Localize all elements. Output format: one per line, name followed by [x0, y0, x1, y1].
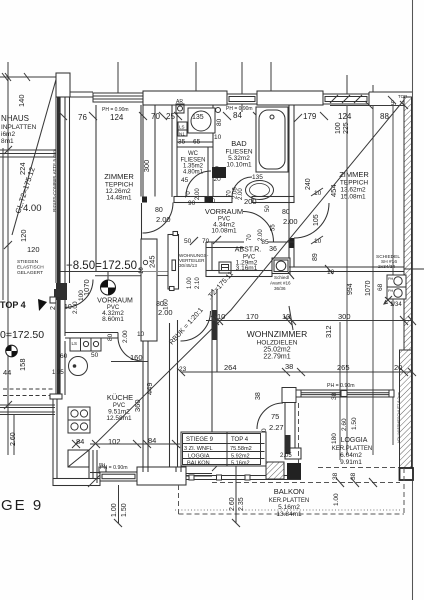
svg-text:70: 70 [186, 191, 192, 198]
svg-text:5.92m2: 5.92m2 [231, 454, 250, 460]
svg-text:4.00: 4.00 [23, 203, 42, 214]
door arc vorraum-zimmer right [294, 203, 329, 238]
texts left margin [0, 94, 157, 514]
svg-text:LS: LS [72, 341, 78, 346]
top wall band BAD [143, 91, 227, 105]
svg-text:100: 100 [78, 290, 85, 301]
svg-text:1.95: 1.95 [52, 370, 64, 376]
svg-text:TOP: TOP [398, 94, 407, 99]
TOP4 arrow [38, 299, 47, 311]
svg-text:38: 38 [350, 472, 357, 480]
svg-text:10: 10 [217, 312, 225, 321]
svg-text:VORRAUM: VORRAUM [205, 207, 243, 216]
svg-text:1070: 1070 [365, 280, 372, 296]
svg-text:GE 9: GE 9 [1, 497, 43, 514]
svg-text:10.08m1: 10.08m1 [211, 228, 237, 235]
top wall right stub [369, 92, 412, 106]
svg-text:75.58m2: 75.58m2 [230, 446, 252, 452]
long vertical extension lines [340, 105, 393, 460]
svg-text:80: 80 [216, 118, 223, 126]
svg-text:70: 70 [151, 112, 160, 121]
kitchen door arc [118, 337, 142, 361]
black wall block in bad [212, 167, 226, 178]
centrelines up from windows [117, 62, 119, 93]
svg-text:35: 35 [178, 139, 186, 146]
svg-text:80: 80 [155, 207, 163, 214]
svg-text:38: 38 [285, 362, 293, 371]
svg-text:8.60m1: 8.60m1 [102, 316, 124, 323]
svg-text:1.50: 1.50 [121, 503, 128, 517]
svg-text:13.84m1: 13.84m1 [276, 511, 302, 518]
svg-text:160: 160 [130, 353, 143, 362]
small box with symbol [219, 262, 231, 273]
svg-text:76: 76 [78, 113, 87, 122]
svg-text:LS: LS [179, 125, 185, 130]
svg-text:180: 180 [331, 433, 338, 444]
svg-text:1/34: 1/34 [390, 302, 402, 308]
svg-text:9.91m1: 9.91m1 [340, 459, 362, 466]
svg-text:245: 245 [148, 255, 157, 268]
svg-text:994: 994 [347, 283, 354, 295]
dim below kitchen window [118, 485, 120, 523]
svg-text:2.00: 2.00 [156, 215, 171, 224]
svg-text:300: 300 [338, 312, 351, 321]
corner pier [56, 73, 70, 97]
svg-text:PH: PH [388, 277, 394, 281]
svg-text:WC: WC [188, 151, 199, 157]
loggia pillar [282, 388, 296, 403]
svg-text:KÜCHE: KÜCHE [107, 393, 133, 402]
svg-text:BAD: BAD [231, 139, 247, 148]
svg-text:36: 36 [269, 246, 277, 253]
sink [69, 357, 88, 376]
balkon pillar hatched + black [266, 462, 284, 479]
svg-text:10.10m1: 10.10m1 [226, 162, 252, 169]
svg-text:10: 10 [214, 134, 222, 141]
kitchen west wall fill [57, 300, 61, 395]
svg-text:PH = 0.90m: PH = 0.90m [100, 465, 128, 471]
svg-text:3 ZI. WNFL: 3 ZI. WNFL [184, 446, 213, 452]
svg-text:10: 10 [282, 312, 290, 321]
zimmer right south wall [289, 265, 424, 274]
level line under +8.50 [60, 271, 141, 273]
svg-text:N1: N1 [179, 132, 185, 137]
svg-text:360: 360 [133, 399, 142, 412]
svg-text:2.00: 2.00 [283, 217, 298, 226]
svg-text:20: 20 [394, 363, 402, 372]
svg-text:2x34/34: 2x34/34 [378, 264, 395, 270]
svg-text:60: 60 [60, 353, 68, 360]
svg-text:3.16m1: 3.16m1 [236, 265, 258, 272]
svg-text:15.08m1: 15.08m1 [340, 194, 366, 201]
svg-text:65: 65 [193, 139, 201, 146]
svg-text:BALKON: BALKON [274, 487, 304, 496]
svg-text:13.62m2: 13.62m2 [340, 187, 366, 194]
chimney right [385, 275, 406, 305]
vorraum-wohnzimmer door arc [181, 311, 211, 341]
svg-text:10: 10 [139, 267, 145, 274]
svg-text:2.00: 2.00 [72, 301, 79, 314]
svg-text:158: 158 [18, 358, 27, 371]
svg-text:84: 84 [148, 436, 156, 445]
svg-text:55: 55 [271, 224, 277, 231]
svg-text:PH = 0.90m: PH = 0.90m [327, 383, 355, 389]
svg-text:5.16m2: 5.16m2 [278, 504, 300, 511]
svg-text:50: 50 [265, 205, 271, 212]
svg-text:10: 10 [137, 331, 145, 338]
svg-text:312: 312 [324, 325, 333, 338]
svg-text:105: 105 [313, 214, 320, 226]
svg-text:50: 50 [91, 352, 99, 359]
svg-text:TOP 4: TOP 4 [0, 300, 26, 310]
svg-text:GELAGERT: GELAGERT [17, 270, 43, 276]
svg-text:160: 160 [163, 299, 170, 310]
east hatched wall upper [404, 97, 412, 350]
wall top-left to window [70, 91, 93, 93]
wc door arc [186, 171, 211, 196]
svg-text:2.00: 2.00 [238, 188, 244, 200]
svg-text:89: 89 [312, 253, 319, 261]
top dim ticks [59, 62, 408, 122]
svg-text:75: 75 [271, 412, 279, 421]
svg-text:2.60: 2.60 [341, 418, 348, 431]
svg-text:2.00: 2.00 [122, 330, 129, 343]
dim line top-left [0, 76, 59, 78]
east wall corner block [400, 468, 414, 480]
east hatched wall lower [400, 350, 412, 468]
svg-text:PH: PH [388, 289, 394, 293]
svg-text:90: 90 [188, 200, 196, 207]
ticks on dashed chain [114, 478, 377, 527]
svg-text:6.04m2: 6.04m2 [340, 452, 362, 459]
loggia texts [332, 437, 373, 466]
window W3 [323, 94, 369, 104]
abstr bottom wall [206, 271, 272, 277]
west wall concrete fill [57, 97, 61, 283]
svg-text:ZIMMER: ZIMMER [104, 172, 134, 181]
door labels [155, 187, 298, 226]
svg-text:200: 200 [244, 197, 257, 206]
svg-text:80: 80 [107, 333, 114, 341]
kitchen north wall [65, 333, 118, 339]
survey symbol upper [95, 272, 157, 296]
svg-text:14.48m1: 14.48m1 [106, 195, 132, 202]
wc texts [180, 151, 205, 176]
svg-text:38: 38 [331, 392, 338, 400]
svg-text:i6m2: i6m2 [1, 131, 15, 138]
svg-text:36/36: 36/36 [274, 286, 286, 291]
svg-text:10: 10 [208, 198, 216, 205]
Schiedl chimney [272, 258, 294, 279]
svg-text:2.10: 2.10 [195, 277, 201, 289]
balkon rail [186, 475, 301, 480]
abstr door arc [243, 211, 274, 242]
right border line [412, 0, 414, 600]
SCHIEDEL label right [376, 254, 400, 270]
svg-text:135: 135 [252, 174, 263, 181]
bathtub [256, 107, 288, 172]
dim chain y372 [177, 368, 416, 376]
svg-text:135: 135 [192, 114, 204, 121]
svg-text:10: 10 [327, 269, 335, 276]
dim line kitchen bottom [72, 440, 180, 448]
stove [68, 407, 90, 433]
svg-text:30/45/13: 30/45/13 [179, 263, 197, 268]
survey symbol lower [6, 345, 18, 357]
svg-text:TEPPICH: TEPPICH [340, 180, 368, 187]
zimmer right west wall [289, 105, 294, 270]
kitchen counter boxes [70, 338, 101, 351]
kuche texts [106, 393, 133, 422]
svg-text:PH = 0.90m: PH = 0.90m [226, 106, 253, 112]
svg-text:NHAUS: NHAUS [1, 114, 29, 123]
svg-text:TOP 4: TOP 4 [231, 437, 249, 443]
svg-text:44: 44 [3, 368, 11, 377]
svg-text:25: 25 [166, 112, 175, 121]
svg-text:70: 70 [247, 234, 253, 241]
svg-text:84: 84 [76, 437, 84, 446]
svg-text:HOLZDIELEN: HOLZDIELEN [257, 340, 298, 347]
svg-text:WOHNZIMMER: WOHNZIMMER [247, 329, 307, 339]
west wall faces [55, 97, 57, 283]
svg-text:2.00: 2.00 [195, 188, 201, 200]
wohnungsverteiler closet [168, 232, 179, 291]
window W2 [227, 94, 257, 104]
svg-text:124: 124 [110, 113, 124, 122]
svg-text:38: 38 [255, 392, 262, 400]
svg-text:85: 85 [261, 239, 269, 246]
svg-text:+8.50=172.50: +8.50=172.50 [66, 260, 137, 272]
svg-text:INPLATTEN: INPLATTEN [1, 124, 37, 131]
entrance door arc [65, 280, 93, 308]
svg-text:1.00: 1.00 [333, 493, 340, 506]
svg-text:8m1: 8m1 [1, 138, 14, 145]
meter box on wall [54, 289, 60, 297]
stair landing lines [0, 149, 56, 151]
svg-text:45: 45 [181, 177, 189, 184]
svg-text:120: 120 [27, 245, 40, 254]
east wall of left zimmer [96, 105, 168, 341]
svg-text:124: 124 [338, 112, 352, 121]
wc pan right of bad [246, 174, 274, 200]
svg-text:170: 170 [246, 312, 259, 321]
wohnzimmer west wall [212, 289, 217, 432]
kitchen east wall [143, 320, 178, 472]
svg-text:240: 240 [305, 178, 312, 190]
svg-text:LOGGIA: LOGGIA [188, 454, 210, 460]
svg-text:68: 68 [377, 283, 384, 291]
svg-text:2.60: 2.60 [10, 432, 17, 446]
svg-text:PH = 0.90m: PH = 0.90m [102, 107, 129, 113]
balkon dashed outline [179, 468, 405, 514]
svg-text:Avant #16: Avant #16 [270, 281, 291, 286]
svg-text:22.79m1: 22.79m1 [263, 354, 290, 361]
loggia door [257, 403, 283, 429]
svg-text:1.50: 1.50 [351, 417, 358, 430]
svg-text:ZIMMER: ZIMMER [339, 170, 369, 179]
door arc vorraum-zimmer left [143, 203, 174, 234]
svg-text:84: 84 [233, 111, 242, 120]
svg-text:1.00: 1.00 [111, 503, 118, 517]
svg-text:100: 100 [335, 122, 342, 134]
svg-text:38: 38 [332, 472, 339, 480]
svg-text:12.58m1: 12.58m1 [106, 415, 132, 422]
svg-text:0=172.50: 0=172.50 [0, 329, 44, 341]
svg-text:264: 264 [224, 363, 237, 372]
svg-text:STIEGE 9: STIEGE 9 [186, 437, 214, 443]
svg-text:2.60: 2.60 [229, 497, 236, 511]
AR box [176, 104, 184, 113]
top wall pier mid [257, 91, 323, 105]
svg-text:5.16m2: 5.16m2 [231, 461, 250, 467]
svg-text:VORRAUM: VORRAUM [97, 298, 133, 305]
svg-text:25.02m2: 25.02m2 [263, 347, 290, 354]
door arc bad [232, 177, 252, 197]
svg-text:449: 449 [145, 382, 154, 395]
window W1 [93, 93, 143, 102]
svg-text:120: 120 [19, 229, 28, 242]
basin in bad top [178, 108, 215, 136]
svg-text:VOLLWÄRMESCHUTZ 8.0cm: VOLLWÄRMESCHUTZ 8.0cm [397, 392, 401, 443]
svg-text:BALKON: BALKON [187, 461, 210, 467]
svg-text:Schiedl: Schiedl [274, 275, 289, 280]
svg-text:STIEGEN: STIEGEN [17, 259, 39, 265]
svg-text:1.00: 1.00 [187, 277, 193, 289]
svg-text:179: 179 [303, 112, 317, 121]
svg-text:2.27: 2.27 [269, 423, 284, 432]
svg-text:4.80m1: 4.80m1 [183, 170, 204, 176]
svg-text:102: 102 [108, 437, 121, 446]
svg-text:2.35: 2.35 [238, 497, 245, 511]
dashed niche line kitchen [3, 388, 55, 390]
west wall lower fill [56, 283, 67, 300]
neighbour wall band left bottom [0, 404, 55, 406]
svg-text:ELASTISCH: ELASTISCH [17, 265, 44, 271]
balkon texts [269, 487, 310, 518]
svg-text:LOGGIA: LOGGIA [341, 437, 368, 444]
svg-text:265: 265 [337, 363, 350, 372]
GL.T2 leader diagonal [12, 76, 57, 235]
svg-text:2.05: 2.05 [280, 453, 292, 459]
svg-text:ABST.R.: ABST.R. [235, 247, 262, 254]
loggia window band [296, 390, 394, 397]
svg-text:140: 140 [17, 94, 26, 107]
dim chain y320 [206, 306, 416, 330]
